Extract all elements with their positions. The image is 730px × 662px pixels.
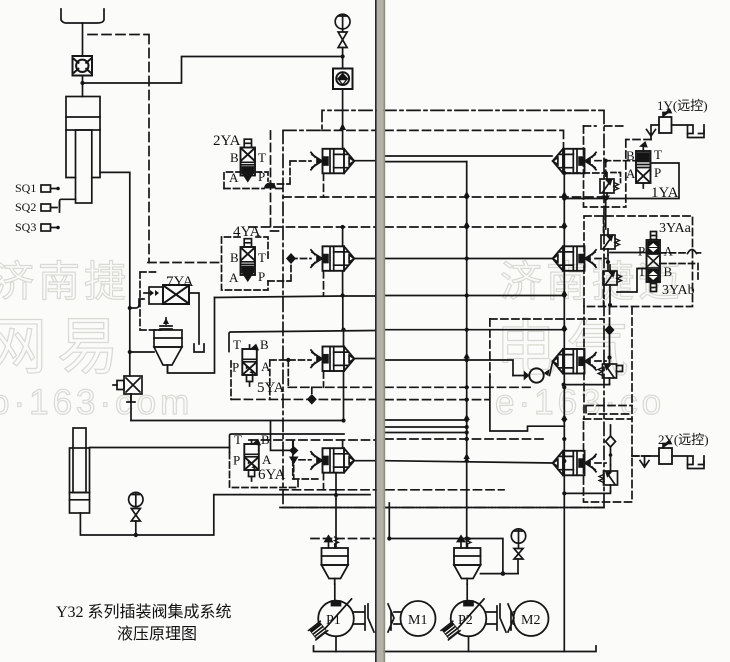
junction diamond row4 <box>289 446 299 455</box>
wire P2 feed vertical continues <box>466 539 468 549</box>
remote valve 2Y <box>640 441 704 469</box>
wire node to gauge line <box>83 57 341 84</box>
arrow up on feed wire <box>339 123 346 130</box>
vertical bus x467 <box>466 162 468 547</box>
6YA plate enclosure <box>230 434 345 453</box>
pump P1 <box>309 599 354 640</box>
wire CT1 pilot dashed <box>268 161 311 184</box>
valve 3YA 3-position <box>647 232 661 292</box>
svg-text:Y32 系列插装阀集成系统: Y32 系列插装阀集成系统 <box>56 603 232 621</box>
svg-text:e·163·co: e·163·co <box>495 383 665 422</box>
pump P2 <box>441 599 486 640</box>
dashed box 7YA <box>140 272 161 330</box>
coupling P2-M2 <box>487 604 515 632</box>
wire RVb bottom <box>609 291 611 305</box>
svg-text:P: P <box>258 169 265 184</box>
valve 6YA <box>244 440 259 481</box>
wire row2 mid tip line <box>354 258 375 260</box>
wire 2Y dashed to box <box>632 455 644 457</box>
bus solid y460.7 <box>385 461 552 463</box>
junction diamond row2 <box>286 253 296 264</box>
cartridge valve CT4 (row4 mid) <box>311 448 354 473</box>
dashed vertical x632 <box>631 307 633 419</box>
svg-text:A: A <box>664 244 674 259</box>
svg-text:P: P <box>233 453 240 468</box>
cartridge valve CT6 (row2 right) <box>553 246 596 270</box>
svg-text:A: A <box>262 452 272 467</box>
svg-text:M1: M1 <box>408 613 427 628</box>
bus dashed y439 <box>249 439 375 441</box>
manifold dash-dot box <box>283 110 604 507</box>
svg-text:B: B <box>230 150 239 165</box>
wire funnel drain riser <box>168 298 215 374</box>
dashed inner 3YA <box>603 216 605 306</box>
shutoff valve under gauge <box>338 29 347 48</box>
gauge G3 <box>511 529 525 559</box>
wire to 7YA <box>130 299 144 308</box>
svg-text:6YA: 6YA <box>258 467 286 483</box>
wire CT2 to CT3 <box>342 271 344 330</box>
cartridge valve CT5 (row1 right) <box>553 149 596 174</box>
wire P1 to filter <box>334 584 336 601</box>
SQ2 switch <box>41 202 60 212</box>
cylinder CYL1 <box>66 97 100 204</box>
svg-text:P: P <box>232 360 239 375</box>
SQ1 switch <box>41 185 60 192</box>
wire CV1 to cylinder <box>82 76 84 97</box>
wire CT3 pilot dashed <box>270 360 312 399</box>
bus solid y432.5 <box>385 432 467 434</box>
wire CT4 bottom to filter P1 <box>335 473 337 548</box>
valve 1YA <box>636 143 651 189</box>
wire row1 mid tip line <box>354 160 375 162</box>
dashed box 4YA <box>222 237 269 290</box>
wire CT4 top dashed <box>342 440 344 448</box>
cartridge valve CT8 (row4 right) <box>553 451 596 476</box>
relief valve RV-L with funnel <box>154 318 182 373</box>
wire 3YA B <box>660 264 698 283</box>
wire row3 mid tip line <box>354 358 375 360</box>
bus dashed y227 <box>249 226 375 228</box>
svg-text:P: P <box>258 269 265 284</box>
dashed y489.8 <box>280 489 504 491</box>
motor M1 <box>401 601 436 636</box>
wire CT4 pilot dashed <box>293 441 311 478</box>
wire gauge down <box>517 559 519 574</box>
wire filter F2 right to gauge <box>481 573 519 575</box>
dashed verticals right mid <box>583 307 585 420</box>
cartridge valve CT7 (row3 right) <box>553 349 596 374</box>
bus solid y258.5 <box>385 258 552 260</box>
node RV1 top <box>604 159 608 163</box>
yoke bracket <box>61 9 104 23</box>
svg-text:3YAa: 3YAa <box>659 221 692 236</box>
dashed box 2YA <box>224 172 268 189</box>
wire node to relief valve <box>130 351 154 353</box>
bus solid y360 to diamond <box>385 360 513 376</box>
svg-text:T: T <box>234 432 242 447</box>
dashed vertical x270 <box>271 131 282 231</box>
wire P2 to filter <box>466 584 468 601</box>
cylinder CYL2 <box>70 428 90 513</box>
svg-text:B: B <box>261 432 270 447</box>
wire riser x389 <box>388 503 390 539</box>
wire 3YA T <box>617 269 647 293</box>
dashed box top-left (remote line) <box>88 35 149 263</box>
svg-text:SQ1: SQ1 <box>15 181 36 195</box>
valve 7YA <box>144 285 199 344</box>
svg-text:P2: P2 <box>458 613 473 628</box>
svg-text:2YA: 2YA <box>213 133 241 149</box>
flow arrows on vertical buses <box>464 191 568 459</box>
junction dots on buses <box>465 195 567 541</box>
valve 4YA <box>241 239 256 281</box>
svg-text:M2: M2 <box>521 613 540 628</box>
bus dashed y387.3 <box>288 386 375 388</box>
cartridge valve CT3 (row3 mid) <box>311 347 354 372</box>
svg-text:A: A <box>261 359 271 374</box>
svg-text:B: B <box>664 264 673 279</box>
dashed y130 <box>322 129 375 131</box>
svg-text:2Y(远控): 2Y(远控) <box>658 432 709 447</box>
motor M2 <box>514 601 549 636</box>
wire CT6 pilot dashed <box>595 258 606 260</box>
wire rod to SQ2 <box>60 199 76 206</box>
relief valve RVa <box>601 229 620 255</box>
wire CT3 stub top <box>343 330 345 347</box>
dashed 2Y to remote <box>632 455 652 457</box>
5YA plate enclosure <box>229 331 375 352</box>
relief valve RVb <box>603 265 622 291</box>
svg-text:1YA: 1YA <box>651 185 679 201</box>
svg-text:T: T <box>258 150 266 165</box>
WATERMARKS <box>0 258 684 422</box>
tank symbol <box>194 344 204 352</box>
check valve CV2 <box>333 69 353 90</box>
svg-text:A: A <box>229 270 239 285</box>
wire y495 from 6YA to P1 feed <box>240 494 370 496</box>
wire gauge to node <box>342 48 344 69</box>
dashed box 1Y/1YA <box>584 126 626 207</box>
node 7YA branch <box>128 306 132 310</box>
node gauge line <box>341 54 345 58</box>
relief valve RV4 <box>599 465 618 491</box>
check diamond near 2Y <box>606 425 616 465</box>
wire RV3 drain to bus <box>564 383 610 386</box>
wire 7YA dashed line across <box>148 262 222 264</box>
bus solid y295.5 <box>385 295 564 297</box>
check valve CV1 <box>73 56 93 76</box>
dashed box small above 2Y <box>586 406 632 415</box>
dashed box 6YA <box>230 453 299 488</box>
svg-text:SQ3: SQ3 <box>15 220 36 234</box>
bus solid y329.7 <box>385 329 564 331</box>
bus dashed y197 <box>283 196 375 198</box>
svg-text:济南捷: 济南捷 <box>0 258 130 305</box>
wire CT2 pilot dashed <box>268 259 311 282</box>
check valve circle CD1 <box>524 368 550 382</box>
coupling P1-M1 <box>354 604 401 632</box>
bus solid y156 <box>385 155 552 157</box>
wire CT5 pilot dashed <box>595 160 648 162</box>
node relief branch <box>128 350 132 354</box>
wire row4 mid tip line <box>354 460 375 462</box>
svg-text:网易: 网易 <box>0 313 129 382</box>
svg-text:P: P <box>638 244 645 259</box>
wire 3YA A <box>660 252 688 254</box>
svg-text:A: A <box>626 166 636 181</box>
wire CYL2 top port <box>90 447 230 449</box>
dash-dot bottom outside <box>280 507 604 509</box>
bus solid y161.6 corner <box>385 161 467 163</box>
wire CV2 down to row1 cartridge <box>342 89 344 149</box>
wire CT8 pilot dashed <box>595 462 606 464</box>
relief valve RV3 <box>598 358 617 384</box>
wire P2 to tank <box>468 637 470 652</box>
wire SV1 down to line <box>130 394 132 421</box>
svg-text:B: B <box>260 337 269 352</box>
svg-text:7YA: 7YA <box>166 274 194 290</box>
wire y538 bus <box>389 539 503 574</box>
cartridge valve CT1 (row1 mid) <box>311 149 354 174</box>
solid box around 1YA <box>564 163 679 199</box>
svg-text:B: B <box>230 250 239 265</box>
tank line bottom <box>314 646 597 652</box>
svg-text:4YA: 4YA <box>233 224 261 240</box>
svg-text:液压原理图: 液压原理图 <box>117 625 197 643</box>
valve 5YA <box>242 345 257 386</box>
node below CV1 <box>80 81 84 85</box>
wire CT7 pilot dashed <box>595 360 606 362</box>
bus solid y427 <box>385 426 467 428</box>
cylinder port wire <box>100 172 130 376</box>
svg-text:P: P <box>654 165 661 180</box>
svg-text:A: A <box>229 170 239 185</box>
wire RV1 <box>605 202 607 229</box>
svg-text:1Y(远控): 1Y(远控) <box>657 98 708 113</box>
wire CYL2 bottom to gauge line <box>80 495 240 535</box>
wire to diamond <box>513 361 553 375</box>
relief valve RV1 <box>600 173 619 199</box>
filter F1 <box>322 536 349 584</box>
vertical bus x564 <box>563 149 565 652</box>
wire P1 to tank <box>335 637 337 652</box>
svg-text:SQ2: SQ2 <box>15 200 36 214</box>
svg-text:T: T <box>654 147 662 162</box>
svg-text:P1: P1 <box>326 613 341 628</box>
wire CT3 bottom to y418 <box>343 371 345 421</box>
svg-text:B: B <box>626 148 635 163</box>
bus solid y420 <box>385 419 467 421</box>
check diamond row3 right <box>609 307 611 325</box>
svg-text:5YA: 5YA <box>257 380 285 396</box>
cartridge valve CT2 (row2 mid) <box>311 246 354 270</box>
wire RVa-RVb <box>607 255 609 271</box>
dashed box 3YA <box>584 216 693 307</box>
SQ3 switch <box>41 224 60 231</box>
remote valve 1Y <box>647 110 705 138</box>
wire RV4 bottom to bus <box>564 491 610 493</box>
junction diamond row3 <box>307 394 317 405</box>
svg-text:T: T <box>638 264 646 279</box>
svg-text:T: T <box>258 250 266 265</box>
wire 1Y dashed <box>650 136 652 140</box>
wire yoke to check valve <box>82 23 84 56</box>
filter F2 <box>454 536 481 584</box>
wire solid lead to diamond row4 <box>271 434 290 450</box>
valve 2YA <box>241 139 256 181</box>
small valve SV1 <box>113 376 142 402</box>
wire horizontal to 6YA <box>131 421 344 435</box>
gauge G2 <box>129 492 143 537</box>
dashed box 2Y <box>584 419 633 502</box>
dashed vertical x490 <box>489 319 491 377</box>
bus dashed y399.6 <box>232 398 375 400</box>
svg-text:o·163·com: o·163·com <box>0 383 193 422</box>
svg-text:T: T <box>233 337 241 352</box>
dashed box 5YA <box>230 361 232 399</box>
wire 3YA P <box>610 252 647 254</box>
wire CT2 feed <box>342 227 344 246</box>
gauge G1 top <box>335 14 350 29</box>
scan fold band <box>375 0 385 662</box>
svg-text:3YAb: 3YAb <box>662 283 695 298</box>
arc jump 2YA <box>264 183 276 189</box>
